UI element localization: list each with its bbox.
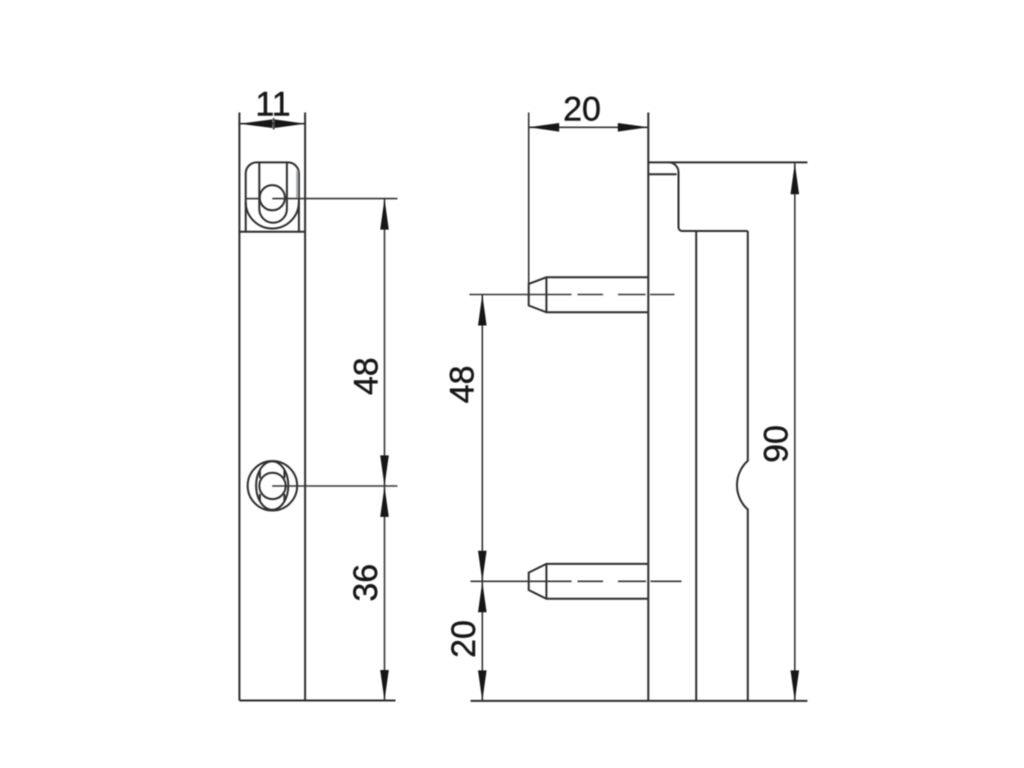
top pin center line [469,294,674,296]
svg-text:48: 48 [444,365,482,403]
svg-text:20: 20 [563,91,601,129]
right view: pin tip extension line (dim 20) [528,113,530,284]
dimension 48/20 right line [481,295,483,701]
dim 48 right up arrow [478,295,487,326]
dim 90 down arrow [791,670,800,701]
dim 90 up arrow [791,163,800,194]
dimension 20 top line [529,126,649,128]
svg-text:11: 11 [255,86,290,124]
dimension 11 left arrow [239,119,272,128]
middle hole outer circle [248,461,298,511]
svg-text:48: 48 [348,357,386,395]
right view: right edge with finger notch [737,231,748,701]
middle hole center line to dimension 48/36 [272,485,397,487]
keeper outer bottom arc [246,202,299,229]
middle hole inner circle [259,473,285,499]
dimension 20 top left arrow [529,123,560,132]
dimension 20 top right arrow [618,123,649,132]
svg-text:90: 90 [758,425,796,463]
dim 48 left up arrow [380,199,389,230]
left view: bar left edge / extension line [238,113,240,701]
svg-text:20: 20 [445,620,483,658]
bottom pin center line [471,580,682,582]
dimension 11 center tick [273,118,275,130]
middle hole wall tick top-left [259,471,261,479]
right view: inner vertical line [695,231,697,701]
middle hole barrel ellipse [256,461,288,509]
dimension 11 line [239,123,305,125]
keeper hole center line left stub [246,198,260,200]
right view: bottom edge + extension for dims [471,700,808,702]
keeper hole center line to dimension 48 [272,198,397,200]
middle hole wall tick bottom-left [259,494,261,502]
svg-text:36: 36 [347,564,385,602]
top pin body [529,277,649,312]
keeper pin hole circle [260,185,285,210]
dim 48 right down arrow [478,551,487,582]
right view: lip bottom line [648,173,676,175]
right view: top edge + extension for dim 90 [648,161,807,163]
keeper base line [239,231,305,233]
keeper outer contour [246,162,299,231]
middle hole wall tick top-right [283,471,285,479]
bottom pin body [529,564,649,599]
middle hole wall tick bottom-right [283,494,285,502]
dimension 48 left line [384,199,386,701]
dim 20 right down arrow [478,670,487,701]
dimension 90 line [794,163,796,701]
right view: lip fillet + step wall [669,162,748,231]
bottom pin cone junction [545,564,547,599]
dim 20 right up arrow [478,582,487,613]
dim 36 up arrow [380,486,389,517]
dimension 11 right arrow [275,119,306,128]
dim 36 down arrow [380,670,389,701]
left view: bar right edge / extension line [304,113,306,701]
left view: bar bottom edge + extension for dim 36 [239,700,395,702]
top pin cone junction [545,277,547,312]
keeper gray wall shade [296,171,298,199]
right view: plate left edge [647,113,649,701]
keeper inner slot [259,162,287,222]
dim 48 left down arrow [380,455,389,486]
